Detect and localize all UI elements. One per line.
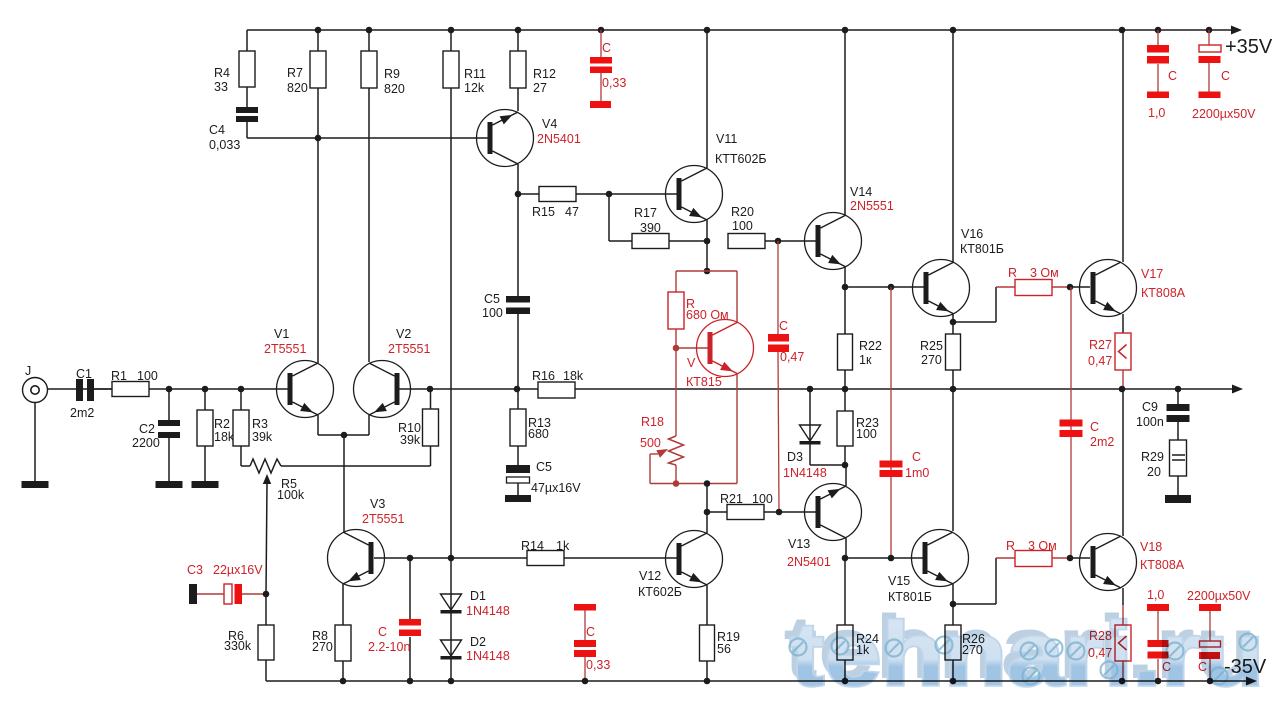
svg-text:R14: R14: [521, 539, 544, 553]
wire V3 emitter to R8: [342, 584, 344, 625]
svg-text:22µx16V: 22µx16V: [213, 563, 263, 577]
wire V13 bottom pin: [845, 538, 847, 558]
wire red loop top left: [676, 271, 707, 292]
node red loop top: [704, 268, 711, 275]
resistor R 3 Ом bottom red: [1006, 539, 1057, 567]
node R27 mid: [1119, 386, 1126, 393]
svg-text:820: 820: [287, 81, 308, 95]
capacitor C 1m0 red: [880, 287, 930, 558]
node C 1m0 top: [888, 284, 895, 291]
resistor R17: [632, 206, 669, 249]
svg-text:C: C: [1221, 69, 1230, 83]
wire R25 to mid: [952, 370, 954, 389]
svg-text:390: 390: [640, 221, 661, 235]
wire V16 emitter: [952, 314, 954, 322]
svg-text:27: 27: [533, 81, 547, 95]
resistor R26: [945, 604, 985, 660]
wire red base lead: [676, 347, 708, 349]
wire V14 collector to rail: [844, 30, 846, 215]
svg-text:100: 100: [482, 306, 503, 320]
transistor V12: [638, 531, 723, 600]
resistor R29: [1141, 440, 1187, 479]
svg-text:R25: R25: [920, 339, 943, 353]
svg-text:2200µx50V: 2200µx50V: [1192, 107, 1256, 121]
capacitor C1: [70, 367, 94, 420]
svg-text:1к: 1к: [859, 353, 872, 367]
wire mid to D3: [809, 389, 811, 465]
svg-text:R1: R1: [111, 369, 127, 383]
wire V17 collector to rail: [1122, 30, 1124, 262]
svg-text:2N5401: 2N5401: [787, 555, 831, 569]
node R25 mid: [950, 386, 957, 393]
svg-text:2T5551: 2T5551: [264, 342, 306, 356]
mid line arrow: [1232, 385, 1243, 394]
svg-text:V18: V18: [1140, 540, 1162, 554]
wire V16 collector to rail: [952, 30, 954, 262]
svg-text:100: 100: [752, 492, 773, 506]
resistor R23: [837, 389, 879, 446]
node R3 top: [238, 386, 245, 393]
resistor R20: [728, 205, 765, 249]
node C 2.2-10n top: [407, 555, 414, 562]
resistor R 3 Ом top red: [1008, 266, 1059, 296]
svg-text:1k: 1k: [556, 539, 570, 553]
svg-text:V17: V17: [1141, 267, 1163, 281]
svg-text:270: 270: [312, 640, 333, 654]
resistor R15: [518, 187, 609, 220]
svg-text:tehnari.ru: tehnari.ru: [790, 605, 1264, 705]
+35V rail arrow and label: [1225, 26, 1273, 59]
resistor R25: [920, 322, 961, 370]
resistor R12: [510, 30, 556, 95]
wire jack to ground: [34, 402, 36, 481]
svg-text:V1: V1: [274, 327, 289, 341]
wire R14 to V12 base: [564, 557, 677, 559]
wire V15 emitter: [952, 584, 954, 604]
wire R26 to rail: [952, 660, 954, 681]
wire to D1: [450, 558, 452, 681]
transistor V KT815 red: [686, 320, 754, 390]
svg-text:+35V: +35V: [1225, 36, 1273, 58]
wire node to R21: [707, 484, 727, 513]
wire R12 to V4 emitter: [517, 88, 519, 111]
-35V rail arrow and label: [1224, 656, 1267, 686]
capacitor C4: [209, 87, 258, 152]
svg-text:КТТ602Б: КТТ602Б: [715, 152, 767, 166]
svg-text:0,47: 0,47: [1088, 354, 1112, 368]
resistor R22: [838, 287, 882, 370]
wire KT815 collector red: [707, 271, 737, 322]
svg-text:3 Ом: 3 Ом: [1028, 539, 1057, 553]
svg-text:R: R: [1008, 266, 1017, 280]
node R15 left: [515, 191, 522, 198]
wire +35V top rail: [247, 29, 1233, 31]
capacitor C2: [132, 389, 180, 481]
svg-text:2N5551: 2N5551: [850, 199, 894, 213]
resistor R2: [197, 389, 235, 481]
svg-text:1N4148: 1N4148: [466, 604, 510, 618]
resistor R1: [111, 369, 158, 397]
node R12 rail: [515, 27, 522, 34]
wire R20 to V14 base: [765, 240, 816, 242]
node R22 mid: [842, 386, 849, 393]
node V2 base: [427, 386, 434, 393]
potentiometer R5: [250, 459, 305, 594]
svg-text:R16: R16: [532, 369, 555, 383]
svg-text:2m2: 2m2: [70, 406, 94, 420]
resistor R27 red: [1088, 333, 1131, 370]
svg-text:C: C: [1168, 69, 1177, 83]
wire V12 emitter to R19: [706, 585, 708, 625]
wire V11 node to red loop: [706, 241, 708, 271]
svg-text:47µx16V: 47µx16V: [531, 481, 581, 495]
wire C4 to V4 base: [247, 137, 489, 139]
wire V13 to V15 base: [845, 557, 924, 559]
svg-text:V11: V11: [716, 132, 737, 146]
svg-text:100: 100: [856, 427, 877, 441]
svg-text:R27: R27: [1089, 338, 1112, 352]
svg-text:12k: 12k: [464, 81, 485, 95]
svg-text:56: 56: [717, 642, 731, 656]
capacitor C 0,33 top: [590, 30, 626, 108]
svg-text:R3: R3: [252, 417, 268, 431]
svg-text:C9: C9: [1142, 400, 1158, 414]
svg-text:1m0: 1m0: [905, 466, 929, 480]
svg-text:C2: C2: [139, 422, 155, 436]
node mid line R13: [514, 386, 521, 393]
transistor V11: [666, 132, 767, 223]
svg-text:1N4148: 1N4148: [783, 466, 827, 480]
svg-text:V15: V15: [888, 574, 910, 588]
potentiometer R18 red: [640, 415, 684, 465]
wire R8 to rail: [342, 661, 344, 681]
node V11 rail: [704, 27, 711, 34]
wire V16 emitter to R 3 Ом: [953, 287, 1015, 322]
wire R680 to base node: [675, 329, 677, 348]
svg-text:1N4148: 1N4148: [466, 649, 510, 663]
svg-text:500: 500: [640, 436, 661, 450]
node V13 base: [776, 509, 783, 516]
svg-text:C: C: [586, 625, 595, 639]
node emitters common: [341, 432, 348, 439]
transistor V3: [328, 497, 405, 587]
svg-text:2.2-10n: 2.2-10n: [368, 640, 410, 654]
svg-text:18k: 18k: [563, 369, 584, 383]
svg-text:R29: R29: [1141, 450, 1164, 464]
node V18 base: [1067, 555, 1074, 562]
svg-text:R17: R17: [634, 206, 657, 220]
svg-text:820: 820: [384, 82, 405, 96]
svg-text:2T5551: 2T5551: [388, 342, 430, 356]
svg-text:R15: R15: [532, 205, 555, 219]
transistor V18: [1080, 534, 1185, 591]
node red bottom R18: [673, 480, 680, 487]
R18 wiper arrow red: [650, 449, 668, 484]
node input after R1: [166, 386, 173, 393]
wire V1 emitter: [318, 415, 344, 435]
svg-text:2N5401: 2N5401: [537, 132, 581, 146]
svg-text:C5: C5: [484, 292, 500, 306]
wire V3 base to R14: [374, 557, 527, 559]
node V14 emitter: [842, 284, 849, 291]
node V15 emitter: [950, 601, 957, 608]
wire R17 to V11 node: [669, 240, 707, 242]
svg-text:V2: V2: [396, 327, 411, 341]
transistor V14: [805, 185, 894, 270]
wire -35V bottom rail: [266, 680, 1247, 682]
svg-text:330k: 330k: [224, 639, 252, 653]
svg-text:39k: 39k: [400, 433, 421, 447]
capacitor C 1,0 top red: [1147, 30, 1177, 120]
node R24 rail: [842, 678, 849, 685]
node R21 left: [704, 509, 711, 516]
wire C5 to mid line: [517, 314, 519, 389]
ground R2: [192, 481, 219, 488]
wire R 3 Ом to V17 base: [1052, 286, 1090, 288]
resistor R11: [443, 30, 486, 95]
wire V15 collector to mid: [952, 389, 954, 531]
wire R15 to V11 base: [609, 193, 677, 195]
wire V12 collector: [706, 512, 708, 533]
svg-text:КТ808А: КТ808А: [1140, 558, 1185, 572]
wire R5 right to R10 bottom: [281, 446, 431, 466]
capacitor C 1,0 bottom red: [1147, 588, 1171, 681]
capacitor C3 red: [187, 563, 266, 604]
wire R18 bottom: [675, 465, 677, 484]
svg-text:V13: V13: [788, 537, 810, 551]
wire R21 to V13 base: [764, 511, 816, 513]
node C 2200 rail bottom: [1207, 678, 1214, 685]
svg-text:C: C: [378, 625, 387, 639]
wire common emitters to V3 collector: [343, 435, 345, 532]
svg-text:33: 33: [214, 80, 228, 94]
svg-text:R2: R2: [214, 417, 230, 431]
svg-text:100: 100: [137, 369, 158, 383]
svg-text:D3: D3: [787, 450, 803, 464]
svg-text:V4: V4: [542, 117, 557, 131]
svg-text:R: R: [1006, 539, 1015, 553]
svg-text:R18: R18: [641, 415, 664, 429]
svg-text:R4: R4: [214, 66, 230, 80]
transistor V15: [888, 530, 969, 605]
svg-text:2T5551: 2T5551: [362, 512, 404, 526]
transistor V17: [1080, 260, 1186, 317]
svg-text:D1: D1: [470, 589, 486, 603]
svg-text:C4: C4: [209, 123, 225, 137]
node C 2.2-10n rail: [407, 678, 414, 685]
resistor R8: [312, 625, 351, 661]
resistor R3: [233, 389, 273, 446]
svg-text:C3: C3: [187, 563, 203, 577]
wire V14 emitter: [844, 267, 846, 287]
ground C5: [505, 495, 531, 502]
resistor R28 red: [1088, 625, 1131, 661]
capacitor C 0,47 red: [768, 241, 804, 512]
svg-text:КТ801Б: КТ801Б: [960, 242, 1004, 256]
node C 1,0 rail bottom: [1155, 678, 1162, 685]
svg-text:18k: 18k: [214, 430, 235, 444]
svg-text:0,33: 0,33: [586, 658, 610, 672]
svg-text:V: V: [687, 356, 696, 370]
svg-text:КТ808А: КТ808А: [1141, 286, 1186, 300]
node V16 rail: [950, 27, 957, 34]
ground C2: [156, 481, 183, 488]
ground R29: [1165, 495, 1191, 503]
svg-text:R20: R20: [731, 205, 754, 219]
node R19 rail: [704, 678, 711, 685]
svg-text:C: C: [602, 41, 611, 55]
wire V15 emitter to R 3 Ом bottom: [953, 558, 1015, 604]
svg-text:100n: 100n: [1136, 415, 1164, 429]
resistor R4: [214, 30, 255, 94]
transistor V16: [913, 227, 1004, 317]
wire R29 to ground: [1177, 476, 1179, 495]
node V14 rail: [842, 27, 849, 34]
node C 1m0 bottom: [888, 555, 895, 562]
svg-text:100k: 100k: [277, 488, 305, 502]
svg-text:0,033: 0,033: [209, 138, 240, 152]
svg-text:270: 270: [921, 353, 942, 367]
svg-text:V12: V12: [639, 569, 661, 583]
svg-text:0,33: 0,33: [602, 76, 626, 90]
wire R 3 Ом to V18 base: [1052, 557, 1090, 559]
wire R22 to mid: [844, 370, 846, 389]
wire R7 to V1 collector: [317, 88, 319, 363]
wire V13 top pin: [845, 465, 847, 486]
capacitor C 2200µx50V bottom red: [1187, 589, 1251, 681]
wire V2 emitter: [344, 415, 369, 435]
wire R11 down to V3 base node: [450, 88, 452, 558]
svg-text:680: 680: [528, 427, 549, 441]
svg-text:C: C: [1090, 420, 1099, 434]
diode D3: [783, 425, 827, 480]
svg-text:R7: R7: [287, 66, 303, 80]
watermark tehnari.ru: [784, 598, 1265, 705]
wire V18 collector to mid: [1122, 389, 1124, 536]
node R7 rail: [315, 27, 322, 34]
wire R24 to rail: [844, 660, 846, 681]
capacitor C 2m2 red: [1060, 287, 1115, 558]
node R8 rail: [340, 678, 347, 685]
resistor R 680 Ом red: [668, 292, 729, 329]
node V17 rail: [1119, 27, 1126, 34]
wire V4 collector down: [517, 164, 519, 296]
svg-text:V3: V3: [370, 497, 385, 511]
wire junction down to R17: [609, 194, 632, 241]
svg-text:1,0: 1,0: [1148, 106, 1165, 120]
wire V18 emitter to R28: [1122, 588, 1124, 625]
svg-text:D2: D2: [470, 635, 486, 649]
resistor R24: [837, 558, 879, 660]
wire R19 to rail: [706, 661, 708, 681]
svg-text:C1: C1: [76, 367, 92, 381]
wire mid output line: [47, 388, 1233, 390]
svg-text:39k: 39k: [252, 430, 273, 444]
wire R6 to rail: [265, 660, 267, 681]
node R7 line at y138: [315, 135, 322, 142]
svg-text:C: C: [779, 319, 788, 333]
svg-text:R9: R9: [384, 67, 400, 81]
wire R27 to mid: [1122, 370, 1124, 389]
svg-text:2m2: 2m2: [1090, 435, 1114, 449]
svg-text:R12: R12: [533, 67, 556, 81]
node V11 emitter R20: [704, 238, 711, 245]
wire red node to R18: [675, 348, 677, 436]
resistor R14: [521, 539, 570, 566]
svg-text:R11: R11: [464, 67, 486, 81]
node V13 emitter: [842, 555, 849, 562]
svg-text:R21: R21: [720, 492, 743, 506]
node C3 R6: [263, 591, 270, 598]
svg-text:3 Ом: 3 Ом: [1030, 266, 1059, 280]
svg-text:47: 47: [565, 205, 579, 219]
svg-text:КТ815: КТ815: [686, 375, 722, 389]
ground jack: [22, 481, 49, 488]
node red bottom black: [704, 480, 711, 487]
transistor V1: [264, 327, 334, 418]
node R23 D3 V13: [842, 462, 849, 469]
svg-text:V16: V16: [961, 227, 983, 241]
resistor R13: [510, 389, 551, 446]
transistor V13: [787, 484, 862, 570]
node C 2200 rail: [1206, 27, 1213, 34]
svg-text:J: J: [25, 364, 31, 378]
capacitor C5 electrolytic: [506, 446, 581, 495]
node C top rail: [598, 27, 605, 34]
svg-text:КТ602Б: КТ602Б: [638, 585, 682, 599]
wire C1 to R1: [93, 388, 112, 390]
svg-text:R22: R22: [859, 339, 882, 353]
node V17 base: [1067, 284, 1074, 291]
wire R28 to rail: [1122, 661, 1124, 681]
svg-text:100: 100: [732, 219, 753, 233]
resistor R16: [532, 369, 584, 398]
node C 1,0 rail: [1155, 27, 1162, 34]
wire V17 emitter to R27: [1122, 314, 1124, 333]
node R28 rail: [1119, 678, 1126, 685]
wire R23 bottom: [844, 446, 846, 465]
wire red bottom: [650, 483, 737, 485]
capacitor C9: [1136, 389, 1190, 440]
resistor R9: [361, 30, 405, 96]
transistor V4: [477, 110, 581, 167]
svg-text:0,47: 0,47: [780, 350, 804, 364]
capacitor C5 series: [482, 292, 530, 320]
svg-text:V14: V14: [850, 185, 872, 199]
node C 0,33 rail bottom: [582, 678, 589, 685]
node C9 mid: [1175, 386, 1182, 393]
node D2 rail: [448, 678, 455, 685]
resistor R21: [720, 492, 773, 520]
wire V14 emitter to V16 base: [845, 286, 924, 288]
node D3 top mid: [807, 386, 814, 393]
capacitor C 2200µx50V top red: [1192, 30, 1256, 121]
wire KT815 emitter red: [736, 374, 738, 484]
node R20 V14 base: [775, 238, 782, 245]
wire V11 collector to rail: [706, 30, 708, 168]
svg-text:C: C: [912, 450, 921, 464]
node R26 rail: [950, 678, 957, 685]
wire V11 emitter: [706, 220, 708, 241]
diode D2: [441, 635, 510, 663]
svg-text:2200: 2200: [132, 436, 160, 450]
svg-text:C5: C5: [536, 460, 552, 474]
capacitor C 2.2-10n: [368, 558, 421, 681]
diode D1: [441, 589, 510, 618]
node R9 rail: [366, 27, 373, 34]
transistor V2: [354, 327, 431, 418]
wire R3 to R5: [241, 446, 250, 466]
